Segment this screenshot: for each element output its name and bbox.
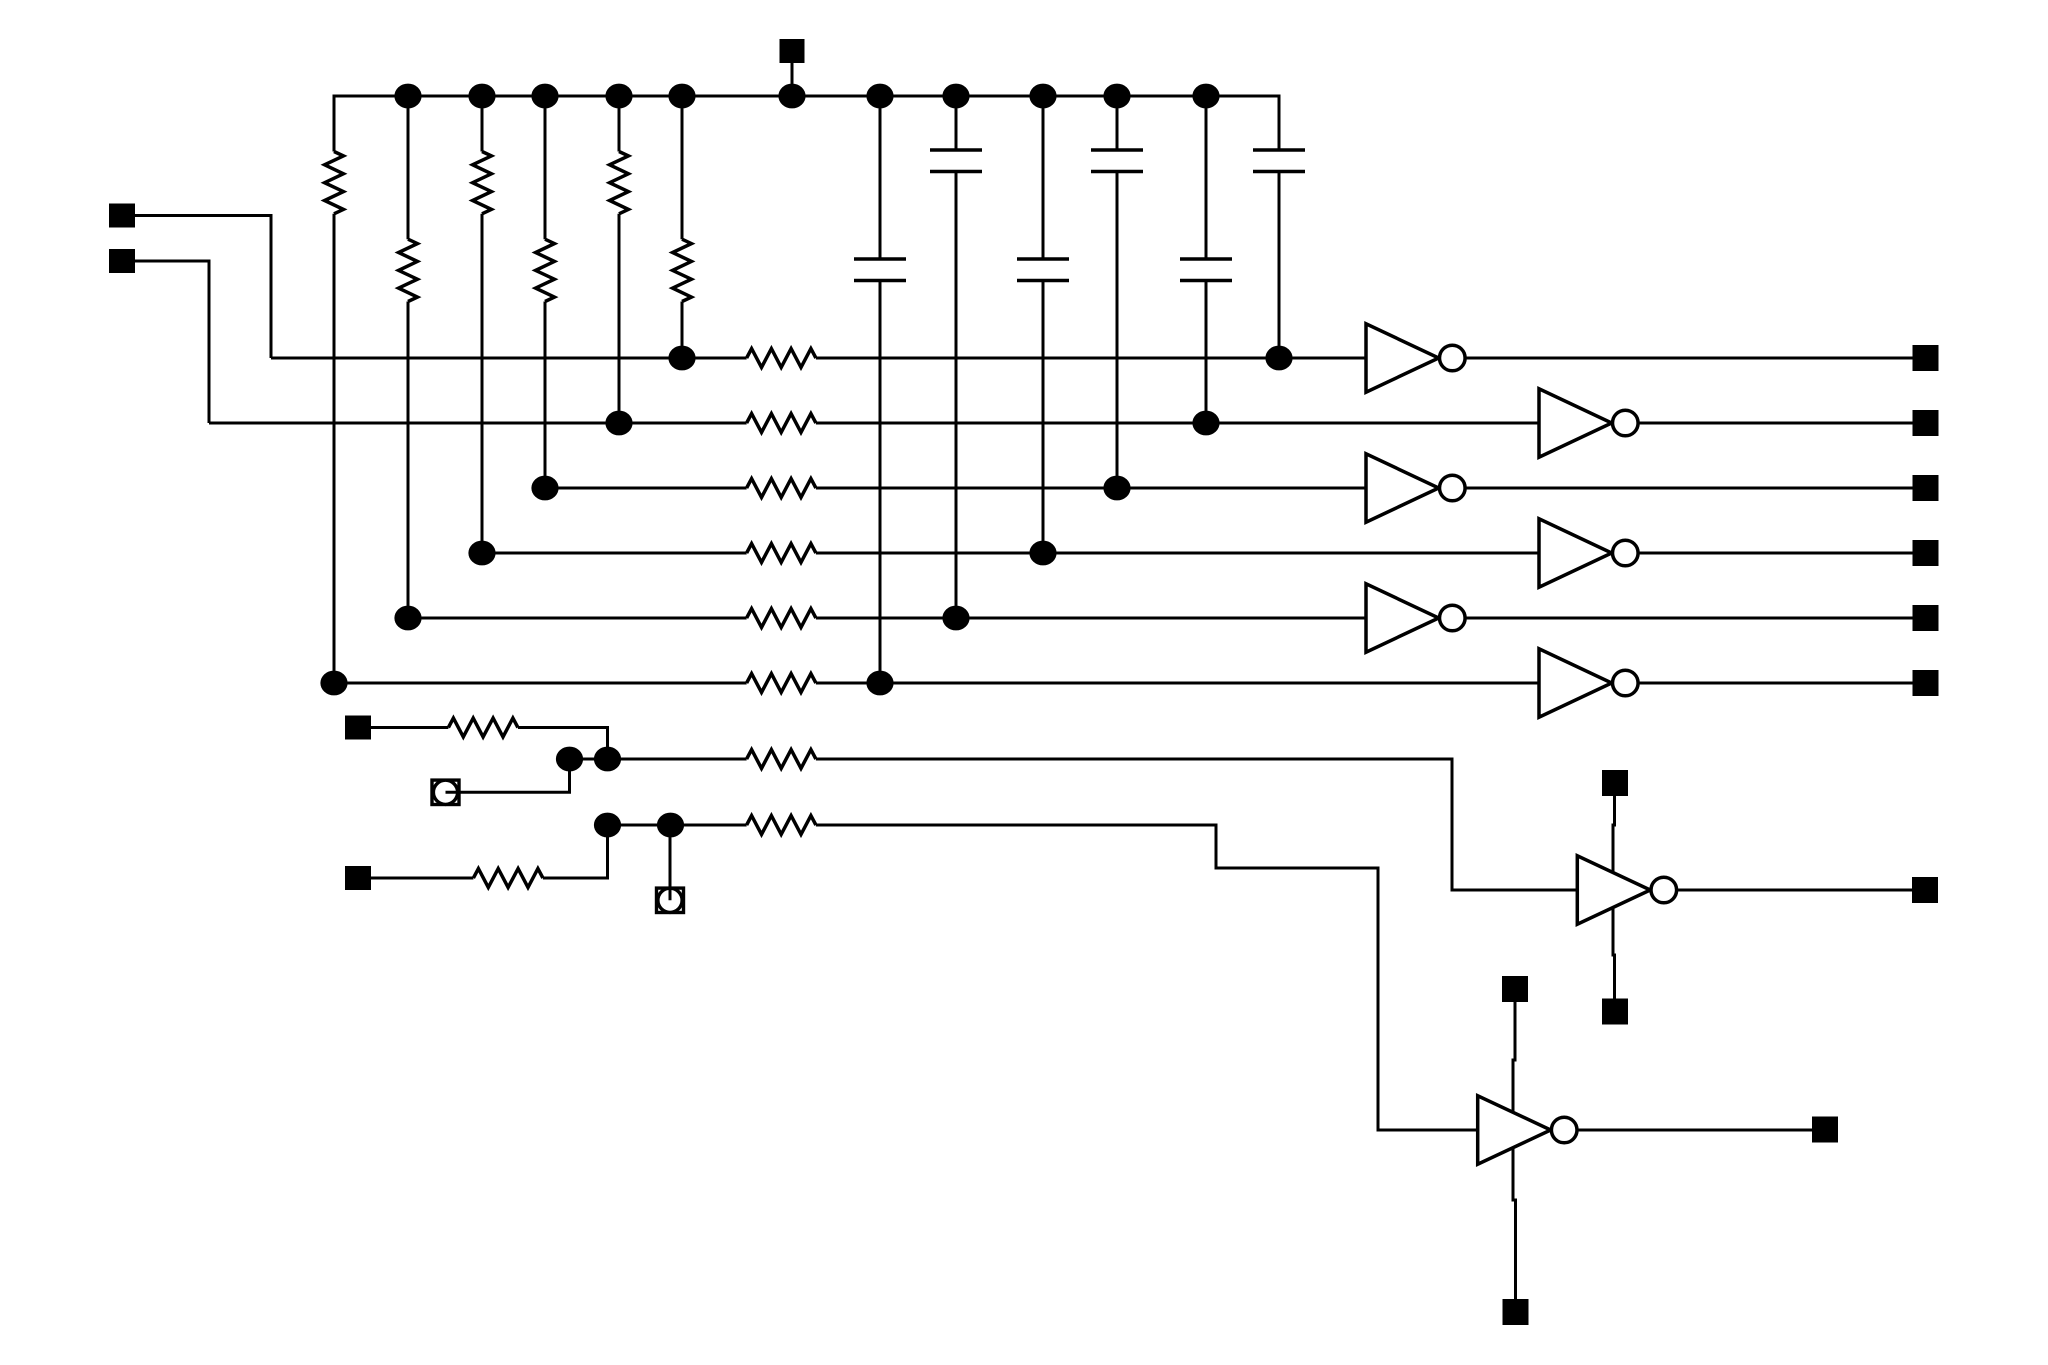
junction bus/C2 — [942, 84, 969, 109]
junction bus/C3 — [1029, 84, 1056, 109]
wire R15 to node C — [543, 825, 608, 878]
inverter U6 — [1539, 649, 1612, 717]
wire inverter U7 output — [1677, 889, 1912, 892]
wire inverter U3 output — [1465, 487, 1912, 490]
resistor R3 — [473, 152, 492, 214]
wire row 1 to inverter U1 input — [816, 357, 1366, 360]
terminal P4 (output pad row 1) — [1913, 345, 1939, 371]
resistor R2 — [399, 239, 418, 301]
junction row 6 right — [866, 671, 893, 696]
wire bus to capacitor C3 — [1042, 96, 1045, 259]
junction node D — [657, 813, 684, 838]
junction row 5 left — [394, 606, 421, 631]
resistor R12 (row 6 series) — [747, 674, 816, 693]
terminal P15 (output pad U8) — [1812, 1117, 1838, 1143]
wire resistor R2 to row 5 — [407, 302, 410, 619]
wire resistor R5 to row 2 — [618, 214, 621, 423]
junction row 3 left — [531, 476, 558, 501]
wire bus to resistor R2 — [407, 96, 410, 239]
wire bus to resistor R4 — [544, 96, 547, 239]
wire row 4 to inverter U4 input — [816, 552, 1539, 555]
capacitor C3 — [1017, 259, 1069, 281]
junction bus/C4 — [1103, 84, 1130, 109]
terminal P11 (input pad lower-left) — [345, 866, 371, 890]
wire row 4 left segment — [482, 552, 747, 555]
junction row 4 right — [1029, 541, 1056, 566]
wire P2 to row 1 — [135, 216, 271, 359]
resistor R1 — [325, 152, 344, 214]
wire P16 to U8 top pin — [1513, 1002, 1515, 1114]
wire P10 to resistor R13 — [371, 726, 448, 729]
wire P11 to resistor R15 — [371, 877, 473, 880]
inverter U3 — [1366, 454, 1439, 522]
wire bus to resistor R6 — [681, 96, 684, 239]
wire U8 bottom pin to P17 — [1513, 1147, 1516, 1300]
junction bus/R2 — [394, 84, 421, 109]
junction node C — [594, 813, 621, 838]
terminal P10 (input pad mid-left) — [345, 716, 371, 740]
wire U7 bottom pin to P14 — [1613, 907, 1615, 1000]
inverter U1 — [1366, 324, 1439, 392]
terminal P14 (supply pad below U7) — [1602, 999, 1628, 1025]
terminal P3 (input pad, lower left) — [109, 249, 135, 273]
wire row 7 to inverter U7 input — [816, 759, 1577, 890]
junction bus/R3 — [468, 84, 495, 109]
resistor R9 (row 3 series) — [747, 479, 816, 498]
wire K1 to node A — [446, 759, 570, 792]
wire row 5 to inverter U5 input — [816, 617, 1366, 620]
wire row 6 to inverter U6 input — [816, 682, 1539, 685]
terminal P17 (supply pad below U8) — [1503, 1299, 1529, 1325]
terminal P12 (output pad U7) — [1912, 877, 1938, 903]
port symbol K1 (square-circle pin) — [432, 780, 459, 804]
wire capacitor C6 to row 1 — [1278, 172, 1281, 359]
resistor R16 (row 8 series) — [747, 816, 816, 835]
terminal P13 (supply pad above U7) — [1602, 770, 1628, 796]
wire inverter U6 output — [1638, 682, 1912, 685]
junction row 1 right — [1265, 346, 1292, 371]
inverter U7 — [1577, 856, 1650, 924]
wire capacitor C2 to row 5 — [955, 172, 958, 619]
junction bus/P1 — [778, 84, 805, 109]
terminal P16 (supply pad above U8) — [1502, 976, 1528, 1002]
inverter U4 — [1539, 519, 1612, 587]
terminal P1 (top supply pad) — [780, 39, 805, 63]
inverter U8 — [1478, 1096, 1551, 1164]
resistor R5 — [610, 152, 629, 214]
wire inverter U5 output — [1465, 617, 1912, 620]
wire capacitor C4 to row 3 — [1116, 172, 1119, 489]
resistor R11 (row 5 series) — [747, 609, 816, 628]
terminal P8 (output pad row 5) — [1913, 605, 1939, 631]
junction row 2 right — [1192, 411, 1219, 436]
wire resistor R3 to row 4 — [481, 214, 484, 553]
wire capacitor C5 to row 2 — [1205, 281, 1208, 424]
resistor R8 (row 2 series) — [747, 414, 816, 433]
wire bus to capacitor C4 — [1116, 96, 1119, 150]
resistor R7 (row 1 series) — [747, 349, 816, 368]
wire R13 to node B — [518, 728, 608, 760]
wire row 8 left segment — [671, 824, 747, 827]
resistor R4 — [536, 239, 555, 301]
junction bus/C5 — [1192, 84, 1219, 109]
wire bus to resistor R5 — [618, 96, 621, 152]
wire row 2 left segment — [209, 422, 747, 425]
capacitor C4 — [1091, 150, 1143, 172]
capacitor C1 — [854, 259, 906, 281]
junction bus/C1 — [866, 84, 893, 109]
wire bus to resistor R3 — [481, 96, 484, 152]
wire P3 to row 2 — [135, 261, 209, 423]
power bus wire (top horizontal net) — [334, 96, 1279, 152]
junction node B — [594, 747, 621, 772]
wire row 2 to inverter U2 input — [816, 422, 1539, 425]
wire row 6 left segment — [334, 682, 747, 685]
wire inverter U8 output — [1577, 1129, 1812, 1132]
terminal P2 (input pad, upper left) — [109, 204, 135, 228]
wire capacitor C1 to row 6 — [879, 281, 882, 684]
capacitor C5 — [1180, 259, 1232, 281]
wire P1 stem to bus — [791, 60, 794, 96]
junction bus/R4 — [531, 84, 558, 109]
terminal P7 (output pad row 4) — [1913, 540, 1939, 566]
terminal P5 (output pad row 2) — [1913, 410, 1939, 436]
resistor R15 — [473, 869, 543, 888]
wire bus to capacitor C2 — [955, 96, 958, 150]
wire row 3 left segment — [545, 487, 747, 490]
resistor R10 (row 4 series) — [747, 544, 816, 563]
wire resistor R6 to row 1 — [681, 302, 684, 359]
junction row 4 left — [468, 541, 495, 566]
resistor R6 — [673, 239, 692, 301]
wire node A to node B — [570, 758, 608, 761]
junction node A — [556, 747, 583, 772]
terminal P6 (output pad row 3) — [1913, 475, 1939, 501]
capacitor C2 — [930, 150, 982, 172]
junction row 5 right — [942, 606, 969, 631]
wire capacitor C3 to row 4 — [1042, 281, 1045, 554]
junction row 2 left — [605, 411, 632, 436]
wire row 8 to inverter U8 input — [816, 825, 1478, 1130]
capacitor C6 — [1253, 150, 1305, 172]
wire row 7 left segment — [608, 758, 747, 761]
wire node D to K2 — [669, 825, 672, 900]
resistor R13 — [448, 718, 518, 737]
wire row 5 left segment — [408, 617, 747, 620]
terminal P9 (output pad row 6) — [1913, 670, 1939, 696]
wire bus to capacitor C1 — [879, 96, 882, 259]
junction row 1 left — [668, 346, 695, 371]
inverter U2 — [1539, 389, 1612, 457]
wire row 3 to inverter U3 input — [816, 487, 1366, 490]
junction bus/R6 — [668, 84, 695, 109]
wire resistor R4 to row 3 — [544, 302, 547, 489]
junction row 6 left — [320, 671, 347, 696]
wire inverter U2 output — [1638, 422, 1912, 425]
port symbol K2 (square-circle pin) — [657, 888, 684, 912]
junction bus/R5 — [605, 84, 632, 109]
wire bus to capacitor C5 — [1205, 96, 1208, 259]
wire P13 to U7 top pin — [1613, 796, 1615, 874]
wire row 1 left segment — [271, 357, 747, 360]
wire inverter U1 output — [1465, 357, 1912, 360]
wire node C to node D — [608, 824, 671, 827]
junction row 3 right — [1103, 476, 1130, 501]
inverter U5 — [1366, 584, 1439, 652]
wire inverter U4 output — [1638, 552, 1912, 555]
wire resistor R1 to row 6 — [333, 214, 336, 683]
resistor R14 (row 7 series) — [747, 750, 816, 769]
